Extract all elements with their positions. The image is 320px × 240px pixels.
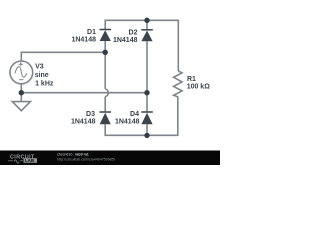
svg-text:D3: D3 (86, 111, 95, 118)
svg-text:D4: D4 (130, 111, 139, 118)
svg-text:1 kHz: 1 kHz (35, 81, 54, 88)
svg-text:1N4148: 1N4148 (71, 37, 96, 44)
svg-text:R1: R1 (187, 76, 196, 83)
svg-text:LAB: LAB (25, 158, 34, 163)
svg-text:chscn610 : lab9 m1: chscn610 : lab9 m1 (57, 152, 89, 156)
svg-text:1N4148: 1N4148 (113, 37, 138, 44)
svg-text:1N4148: 1N4148 (71, 118, 96, 125)
svg-text:sine: sine (35, 72, 49, 79)
svg-text:D1: D1 (87, 29, 96, 36)
svg-text:V3: V3 (35, 64, 44, 71)
svg-text:1N4148: 1N4148 (115, 118, 140, 125)
svg-text:http://circuitlab.com/c/a44b47: http://circuitlab.com/c/a44b4750985t (57, 158, 115, 162)
svg-text:D2: D2 (129, 30, 138, 37)
svg-text:100 kΩ: 100 kΩ (187, 84, 211, 91)
